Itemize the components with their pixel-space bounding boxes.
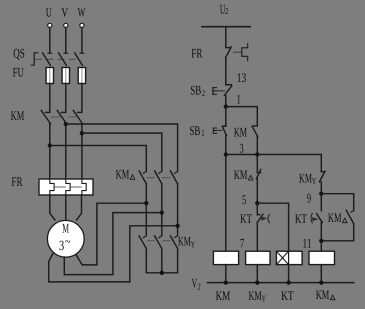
wire star2 down (161, 248, 163, 272)
svg-text:W: W (78, 4, 86, 19)
svg-text:5: 5 (242, 192, 246, 207)
wire delta2 to motor lead u2 (64, 213, 162, 275)
wire SB2 to node 1 (225, 96, 227, 107)
svg-text:KM: KM (328, 210, 342, 225)
label KT coil (281, 288, 294, 303)
svg-text:KT: KT (281, 288, 294, 303)
svg-text:11: 11 (303, 236, 312, 251)
node 3 bus (226, 154, 321, 156)
wire delta3 down (177, 184, 179, 236)
svg-text:~: ~ (65, 235, 71, 250)
svg-text:U: U (46, 4, 52, 19)
wire delta2 down (161, 184, 163, 236)
coil KM (213, 251, 238, 264)
wire delta3 to motor lead v2 (49, 226, 178, 282)
svg-text:QS: QS (13, 45, 25, 60)
label QS (13, 45, 25, 60)
switch QS three poles (43, 53, 84, 65)
svg-text:KM: KM (178, 233, 191, 248)
label KM aux (234, 125, 247, 140)
svg-text:FR: FR (191, 45, 202, 60)
fuse FU1 (46, 68, 53, 84)
label 9 (307, 191, 311, 206)
label V2 (192, 275, 201, 291)
contactor KM-delta contacts (139, 171, 177, 184)
label KM main contacts (11, 108, 25, 123)
wire parallel contact to node 11 (321, 224, 353, 241)
wire KT coil to bus (288, 265, 290, 283)
label SB2 (190, 83, 205, 98)
label KM coil (216, 288, 231, 303)
fuse FU2 (62, 68, 69, 84)
bus V2 (207, 282, 353, 284)
wire delta1 to motor lead w2 (76, 203, 146, 265)
svg-text:KM: KM (116, 167, 130, 182)
label KMY coil (249, 288, 267, 304)
wire KM coil to bus (225, 265, 227, 283)
contactor KM-star NO contact (319, 155, 325, 182)
terminal U (48, 23, 52, 27)
svg-text:KM: KM (234, 167, 248, 182)
fuse FU3 (78, 68, 85, 84)
label KM-star branch (299, 170, 317, 186)
label FU (13, 64, 25, 79)
node 1 (224, 104, 228, 108)
wire node3 to KM coil (225, 155, 227, 252)
wire V terminal to QS (65, 28, 67, 52)
svg-text:KM: KM (234, 125, 247, 140)
terminal W (80, 23, 84, 27)
svg-text:V: V (61, 4, 68, 19)
coil KM-delta (309, 251, 335, 264)
node bus KMY (255, 280, 259, 284)
wire fuse1 to KM (49, 84, 51, 112)
wire U terminal to QS (49, 28, 51, 52)
KM-star linkage dashed line (147, 240, 170, 242)
svg-text:KT: KT (240, 211, 252, 226)
FR trip element symbol (234, 44, 248, 61)
svg-text:FR: FR (11, 174, 22, 189)
svg-text:KM: KM (299, 170, 312, 185)
node delta2 (160, 210, 164, 214)
svg-text:1: 1 (201, 128, 204, 138)
label FR (11, 174, 22, 189)
wire phase V to delta column 3 (66, 124, 178, 171)
node 5 (255, 201, 259, 205)
switch QS linkage dashed line (35, 58, 77, 60)
node junction phase W (80, 131, 84, 135)
svg-text:9: 9 (307, 191, 311, 206)
node junction phase V (64, 122, 68, 126)
node star point (160, 271, 164, 275)
wire KM3 down to FR (81, 124, 83, 179)
svg-text:Y: Y (312, 176, 317, 186)
thermal relay FR heater elements (39, 179, 93, 195)
label 3 (240, 140, 244, 155)
control bus U2 (202, 26, 250, 28)
label KM-delta interlock (234, 167, 253, 182)
node bus KM (224, 280, 228, 284)
svg-text:KM: KM (216, 288, 231, 303)
label KM-delta contacts (116, 167, 135, 182)
node bus KT (286, 280, 290, 284)
label KT delayed NC (240, 211, 252, 226)
label 13 (237, 70, 247, 85)
contactor KM main contacts (41, 110, 82, 123)
svg-text:KM: KM (11, 108, 25, 123)
wire KMY coil to bus (256, 265, 258, 283)
thermal relay FR NC contact (226, 47, 232, 58)
svg-text:Y: Y (262, 294, 267, 304)
svg-text:2: 2 (225, 6, 228, 16)
wire KT contact to KMY coil (256, 222, 258, 251)
node delta3 (175, 224, 179, 228)
svg-text:SB: SB (189, 123, 200, 138)
label KT delayed NO (295, 211, 307, 226)
svg-text:Y: Y (191, 239, 196, 249)
label 1 (237, 92, 241, 107)
node delta1 (144, 201, 148, 205)
contactor KM-delta NO parallel contact (346, 210, 354, 224)
label FR control (191, 45, 202, 60)
node bus KM-delta (319, 280, 323, 284)
terminal V (64, 23, 68, 27)
svg-text:7: 7 (240, 236, 244, 251)
label KM-delta coil (316, 287, 335, 302)
time relay KT delayed-opening NC contact (257, 203, 269, 223)
wire bus to FR contact (225, 27, 227, 48)
coil KT time relay (276, 251, 302, 264)
wire fuse2 to KM (65, 84, 67, 112)
coil KM-star (246, 251, 270, 264)
contactor KM auxiliary NO contact (252, 126, 258, 137)
pushbutton SB1 start NO (213, 107, 226, 136)
wire KMY contact to node 9 (320, 182, 322, 194)
wire star3 down (177, 248, 179, 272)
node junction phase U (48, 143, 52, 147)
label 5 (242, 192, 246, 207)
svg-text:3: 3 (59, 239, 64, 254)
label KM-star contacts (178, 233, 196, 249)
time relay KT delayed-closing NO contact (311, 194, 322, 223)
wire star1 down (145, 248, 147, 272)
svg-text:FU: FU (13, 64, 25, 79)
svg-text:2: 2 (202, 88, 205, 98)
node 9 (319, 192, 323, 196)
wire SB1 to node 3 (225, 136, 227, 155)
label 11 (303, 236, 312, 251)
motor M 3-phase (47, 220, 84, 257)
wire W terminal to QS (81, 28, 83, 52)
contactor KM-delta NC interlock contact (256, 155, 260, 179)
wire node5 to KT coil (257, 203, 288, 251)
wire FR1 to motor (50, 195, 55, 220)
svg-text:1: 1 (237, 92, 241, 107)
label SB1 (189, 123, 204, 138)
wire phase W to delta column 2 (82, 133, 162, 171)
svg-text:KM: KM (316, 287, 330, 302)
node 11 (319, 239, 323, 243)
svg-text:SB: SB (190, 83, 201, 98)
svg-text:13: 13 (237, 70, 247, 85)
wire KT contact to node 11 (320, 223, 322, 252)
pushbutton SB2 stop NC (213, 85, 232, 96)
star point bar (146, 272, 177, 274)
wire FR3 to motor (77, 195, 82, 220)
label U2 (220, 1, 228, 16)
wire interlock to node 5 (256, 179, 258, 204)
wire KM-delta coil to bus (320, 265, 322, 283)
svg-text:3: 3 (240, 140, 244, 155)
phase terminal labels U V W (46, 4, 86, 19)
svg-text:2: 2 (198, 281, 201, 291)
switch QS handle bracket (31, 53, 38, 65)
KM-delta linkage dashed line (147, 177, 170, 179)
wire node9 to parallel branch (321, 194, 353, 211)
svg-text:M: M (62, 221, 69, 236)
wire KM aux to node 3 (256, 137, 258, 155)
wire KM2 down to FR (65, 124, 67, 179)
node 3 junction a (224, 152, 228, 156)
wire node1 to KM aux branch (226, 107, 257, 126)
wire FR2 to motor (65, 195, 67, 220)
svg-text:KM: KM (249, 288, 262, 303)
KM linkage dashed line (52, 116, 76, 118)
contactor KM-star contacts (139, 236, 177, 248)
svg-text:KT: KT (295, 211, 307, 226)
node 3 junction b (255, 152, 259, 156)
wire phase U to delta column 1 (50, 146, 147, 172)
wire delta1 down (145, 184, 147, 236)
wire fuse3 to KM (81, 84, 83, 112)
label KM-delta parallel contact (328, 210, 347, 225)
label 7 (240, 236, 244, 251)
wire KM1 down to FR (49, 124, 51, 179)
wire FR to SB2 (225, 58, 227, 85)
